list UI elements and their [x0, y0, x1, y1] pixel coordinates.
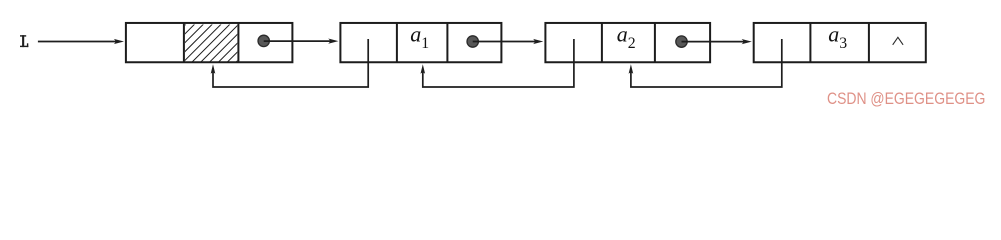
- node 3 outer box: [545, 23, 710, 62]
- svg-text:a2: a2: [617, 22, 636, 53]
- node 2 outer box: [340, 23, 501, 62]
- node 4 cell divider 1: [809, 23, 811, 62]
- null mark (lambda/caret) in node4.next cell: [893, 37, 903, 45]
- node 3 cell divider 2: [654, 23, 656, 62]
- svg-text:a3: a3: [828, 22, 847, 53]
- node 1 (head node) outer box: [126, 23, 293, 62]
- node 1 prior-cell hatch (null prior): [146, 23, 275, 64]
- wire: node2.prior back to node 1 (down, left, up with arrowhead): [213, 39, 368, 87]
- node 1 next-pointer bullet: [258, 35, 269, 46]
- arrowhead of node4.prior pointing up at node 3: [629, 64, 634, 74]
- node 3 cell divider 1: [601, 23, 603, 62]
- node 1 cell divider 2: [237, 23, 239, 62]
- node 4 outer box: [754, 23, 926, 62]
- wire: node1.next to node 2 with arrowhead: [264, 39, 339, 44]
- node L pointer label: [20, 35, 28, 47]
- wire: node3.prior back to node 2 (down, left, up with arrowhead): [423, 39, 574, 87]
- arrowhead of node2.prior pointing up at node 1: [211, 64, 216, 74]
- wire: node3.next to node 4 with arrowhead: [682, 39, 752, 44]
- wire: node2.next to node 3 with arrowhead: [473, 39, 544, 44]
- svg-text:a1: a1: [410, 21, 429, 52]
- wire: L to head node with arrowhead: [38, 39, 124, 44]
- node 4 cell divider 2: [868, 23, 870, 62]
- node 2 cell divider 1: [396, 23, 398, 62]
- node 3 next-pointer bullet: [676, 36, 687, 47]
- node 1 cell divider 1: [183, 23, 185, 62]
- arrowhead of node3.prior pointing up at node 2: [421, 64, 426, 74]
- svg-text:CSDN @EGEGEGEGEG: CSDN @EGEGEGEGEG: [827, 89, 985, 108]
- wire: node4.prior back to node 3 (down, left, up with arrowhead): [631, 39, 782, 87]
- node 2 next-pointer bullet: [467, 36, 478, 47]
- node 2 cell divider 2: [446, 23, 448, 62]
